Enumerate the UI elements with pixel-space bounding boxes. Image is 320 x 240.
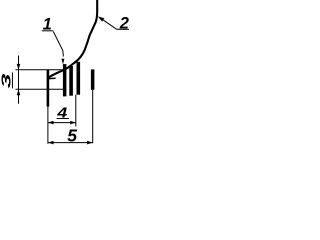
left wall bar: [47, 70, 50, 107]
dim 4 dimension line: [48, 122, 76, 124]
label 2 arrow: [98, 16, 105, 21]
label 2 leader: [101, 18, 117, 29]
dim 5 dimension line: [48, 142, 93, 144]
dim 4 right extension line (below bar 2b): [75, 95, 77, 127]
label 2 shelf: [117, 28, 129, 30]
dim 3 top arrow: [17, 64, 21, 70]
dim 4 left arrow: [48, 121, 54, 125]
dim 3 vertical dimension line: [18, 56, 20, 104]
svg-text:3: 3: [0, 73, 13, 88]
bar 3: [91, 69, 95, 89]
dim 4 left extension line (below left wall bar): [47, 107, 49, 144]
label 1 shelf: [42, 30, 54, 32]
bar 2b: [77, 62, 81, 95]
label 3 shelf: [11, 72, 13, 88]
label 4 shelf: [57, 118, 69, 120]
extension line A (top of bar 3, dim 3): [16, 69, 64, 71]
horn curve (meniscus profile): [49, 0, 97, 77]
svg-text:5: 5: [67, 126, 77, 146]
dim 5 left arrow: [48, 141, 54, 145]
label 1 leader: [53, 32, 63, 57]
dim 3 bottom arrow: [17, 89, 21, 95]
stub line at curve foot: [49, 77, 56, 79]
label 1 arrow: [61, 59, 64, 65]
dim 5 right extension line (below bar 3): [92, 90, 94, 143]
extension line B (bottom of bar 3, dim 3): [16, 88, 64, 90]
bar 1: [63, 64, 67, 96]
bar 2: [69, 66, 73, 96]
dim 4 right arrow: [70, 121, 76, 125]
dim 5 right arrow: [87, 141, 93, 145]
